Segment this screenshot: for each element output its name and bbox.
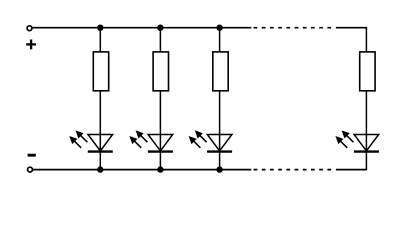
terminal - (negative input) <box>28 167 33 172</box>
node junction bottom 3 <box>216 166 222 172</box>
wire branch3 lower <box>219 91 221 170</box>
node junction top 3 <box>216 25 222 31</box>
wire top rail dashed continuation <box>254 27 332 29</box>
label + <box>26 40 36 50</box>
wire branchn lower <box>365 91 367 170</box>
terminal + (positive input) <box>27 26 32 31</box>
wire branch2 lower <box>159 91 161 170</box>
LED Dn <box>335 130 379 151</box>
wire top rail solid right <box>336 27 367 29</box>
wire bottom rail solid left <box>32 169 251 171</box>
wire branch1 upper <box>99 27 101 53</box>
wire branch3 upper <box>219 27 221 53</box>
label - <box>28 154 36 157</box>
wire top rail solid left <box>32 27 251 29</box>
node junction top 1 <box>97 25 103 31</box>
wire branch1 lower <box>99 91 101 170</box>
node junction bottom 2 <box>157 166 163 172</box>
wire bottom rail dashed continuation <box>254 169 332 171</box>
LED D1 <box>69 130 113 151</box>
wire bottom rail solid right <box>336 169 367 171</box>
node junction top 2 <box>157 25 163 31</box>
node junction bottom 1 <box>97 166 103 172</box>
resistor R3 <box>213 52 228 91</box>
LED D2 <box>129 130 173 151</box>
wire branch2 upper <box>159 27 161 53</box>
resistor R2 <box>153 52 168 91</box>
resistor Rn <box>360 52 375 91</box>
wire branchn upper <box>365 27 367 53</box>
LED D3 <box>189 130 233 151</box>
resistor R1 <box>93 52 108 91</box>
